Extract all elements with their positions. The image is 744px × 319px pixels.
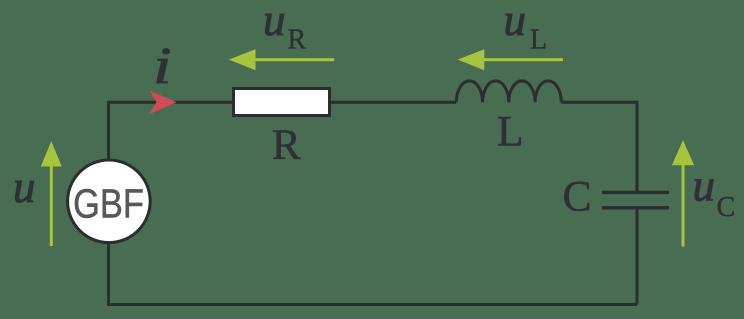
svg-text:u: u [263,0,286,45]
wire left upper segment [107,101,110,160]
svg-text:GBF: GBF [73,182,144,227]
current arrow i [150,91,177,115]
source GBF [68,160,151,243]
svg-text:i: i [153,38,172,96]
arrow u left [41,141,62,246]
svg-text:C: C [717,192,736,223]
svg-text:u: u [693,161,716,211]
svg-text:u: u [13,162,36,212]
resistor R [234,89,330,116]
inductor L [456,81,561,102]
arrow uC [672,140,694,246]
capacitor C bottom plate [602,206,669,209]
arrow uR [229,49,334,70]
wire top-left segment [109,101,233,104]
wire right upper segment [636,101,639,193]
svg-text:L: L [497,108,524,156]
svg-text:L: L [530,24,547,55]
svg-text:C: C [562,173,591,221]
svg-text:R: R [272,121,301,169]
wire right lower segment [636,208,639,305]
svg-text:u: u [504,0,527,45]
wire bottom [109,303,638,306]
svg-text:R: R [288,24,307,55]
arrow uL [458,49,563,70]
wire between resistor and inductor [331,101,456,104]
wire left lower segment [107,243,110,306]
wire inductor to top-right corner [561,101,637,104]
capacitor C top plate [602,191,669,194]
